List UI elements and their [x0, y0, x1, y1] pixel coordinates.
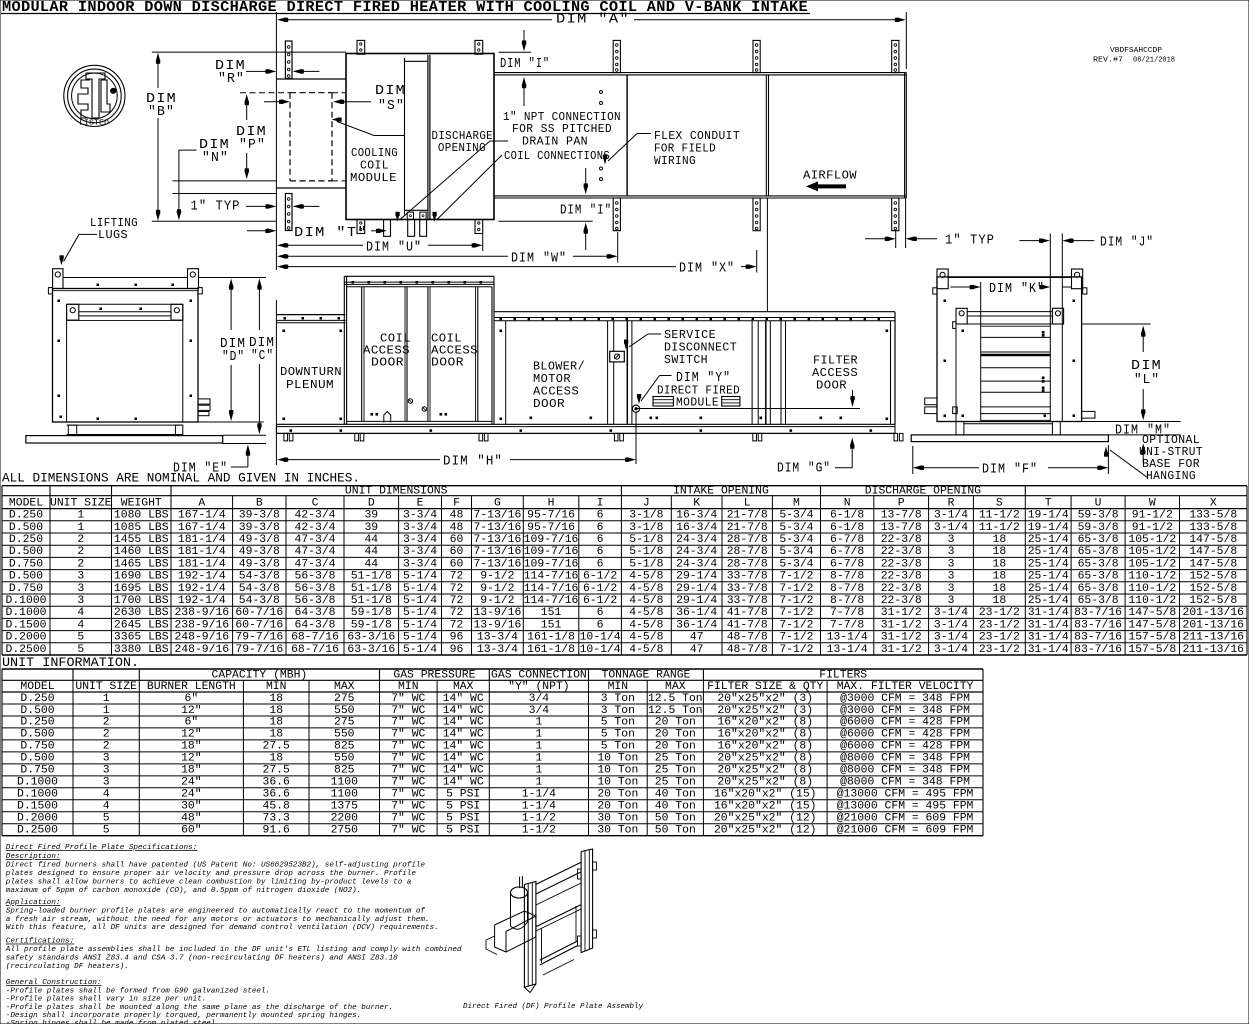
svg-text:1375: 1375: [331, 801, 359, 813]
svg-text:105-1/2: 105-1/2: [1128, 546, 1176, 558]
svg-text:5-1/4: 5-1/4: [403, 632, 437, 644]
right end view: filter rack shelves: [981, 326, 1051, 420]
svg-text:3: 3: [948, 558, 955, 570]
svg-text:plates designed to ensure prop: plates designed to ensure proper air vel…: [5, 870, 417, 878]
svg-text:"R": "R": [218, 71, 245, 87]
svg-text:R: R: [948, 498, 955, 510]
svg-text:64-3/8: 64-3/8: [294, 619, 335, 631]
svg-text:147-5/8: 147-5/8: [1189, 546, 1237, 558]
dimension DIM H / DIM Y line: [277, 413, 636, 470]
svg-text:7" WC: 7" WC: [391, 753, 425, 765]
svg-text:5-1/8: 5-1/8: [629, 558, 663, 570]
svg-text:20"x25"x2" (8): 20"x25"x2" (8): [717, 777, 813, 789]
svg-text:MIN: MIN: [608, 681, 629, 693]
label COOLING COIL MODULE: [350, 146, 398, 185]
svg-text:7-13/16: 7-13/16: [473, 534, 521, 546]
svg-text:68-7/16: 68-7/16: [291, 644, 339, 656]
dimension DIM W: [277, 232, 618, 267]
svg-text:79-7/16: 79-7/16: [235, 632, 283, 644]
svg-text:8-7/8: 8-7/8: [830, 583, 864, 595]
svg-text:19-1/4: 19-1/4: [1028, 510, 1069, 522]
svg-text:25 Ton: 25 Ton: [655, 765, 696, 777]
svg-text:@8000 CFM = 348 FPM: @8000 CFM = 348 FPM: [840, 753, 970, 765]
elevation: base channel with feet: [276, 424, 903, 441]
svg-text:FILTER SIZE & QTY: FILTER SIZE & QTY: [707, 681, 823, 693]
svg-text:68-7/16: 68-7/16: [291, 632, 339, 644]
svg-text:General Construction:: General Construction:: [6, 979, 102, 987]
svg-text:3: 3: [77, 571, 84, 583]
svg-text:7-1/2: 7-1/2: [779, 644, 813, 656]
svg-text:41-7/8: 41-7/8: [727, 607, 768, 619]
svg-text:MODEL: MODEL: [20, 681, 54, 693]
projection line plan-to-elevation: [766, 198, 768, 312]
svg-text:1" TYP: 1" TYP: [945, 233, 995, 249]
svg-text:6: 6: [597, 534, 604, 546]
plan: duct flange posts: [613, 40, 899, 230]
svg-text:3-1/4: 3-1/4: [934, 510, 968, 522]
svg-text:65-3/8: 65-3/8: [1078, 534, 1119, 546]
svg-text:110-1/2: 110-1/2: [1128, 583, 1176, 595]
svg-text:56-3/8: 56-3/8: [294, 595, 335, 607]
dimension DIM R: [215, 58, 319, 87]
svg-text:1080 LBS: 1080 LBS: [114, 510, 169, 522]
svg-text:60: 60: [450, 546, 464, 558]
service disconnect switch: [610, 351, 625, 362]
svg-text:16"x20"x2" (8): 16"x20"x2" (8): [717, 717, 813, 729]
svg-text:5-3/4: 5-3/4: [779, 510, 813, 522]
svg-text:7" WC: 7" WC: [391, 693, 425, 705]
svg-text:133-5/8: 133-5/8: [1189, 522, 1237, 534]
svg-text:6: 6: [597, 558, 604, 570]
svg-text:48: 48: [450, 510, 464, 522]
svg-text:@6000 CFM = 428 FPM: @6000 CFM = 428 FPM: [840, 717, 970, 729]
svg-text:60": 60": [181, 825, 202, 837]
svg-text:114-7/16: 114-7/16: [524, 571, 579, 583]
svg-text:@8000 CFM = 348 FPM: @8000 CFM = 348 FPM: [840, 777, 970, 789]
svg-text:181-1/4: 181-1/4: [178, 546, 226, 558]
svg-text:12": 12": [181, 729, 202, 741]
svg-text:5: 5: [77, 632, 84, 644]
svg-text:2: 2: [103, 717, 110, 729]
svg-text:31-1/4: 31-1/4: [1028, 632, 1069, 644]
svg-text:"N": "N": [202, 150, 229, 166]
svg-text:@3000 CFM = 348 FPM: @3000 CFM = 348 FPM: [840, 693, 970, 705]
svg-text:@3000 CFM = 348 FPM: @3000 CFM = 348 FPM: [840, 705, 970, 717]
svg-text:24-3/4: 24-3/4: [676, 534, 717, 546]
svg-text:2: 2: [103, 741, 110, 753]
svg-text:22-3/8: 22-3/8: [881, 571, 922, 583]
svg-text:1: 1: [535, 741, 542, 753]
svg-text:3-3/4: 3-3/4: [403, 510, 437, 522]
svg-text:192-1/4: 192-1/4: [178, 583, 226, 595]
svg-text:105-1/2: 105-1/2: [1128, 558, 1176, 570]
svg-text:3 Ton: 3 Ton: [601, 693, 635, 705]
svg-text:25-1/4: 25-1/4: [1028, 546, 1069, 558]
svg-text:248-9/16: 248-9/16: [174, 644, 229, 656]
svg-text:7" WC: 7" WC: [391, 717, 425, 729]
svg-text:83-7/16: 83-7/16: [1074, 644, 1122, 656]
svg-text:14" WC: 14" WC: [443, 765, 484, 777]
svg-text:MAX: MAX: [334, 681, 355, 693]
svg-text:23-1/2: 23-1/2: [979, 619, 1020, 631]
svg-text:25-1/4: 25-1/4: [1028, 534, 1069, 546]
svg-text:MODULE: MODULE: [350, 171, 397, 185]
svg-text:30 Ton: 30 Ton: [597, 813, 638, 825]
svg-text:31-1/4: 31-1/4: [1028, 619, 1069, 631]
svg-text:40 Ton: 40 Ton: [655, 801, 696, 813]
svg-text:18": 18": [181, 741, 202, 753]
svg-text:T: T: [1045, 498, 1052, 510]
svg-text:51-1/8: 51-1/8: [351, 571, 392, 583]
dimension DIM B: [146, 53, 177, 221]
svg-text:147-5/8: 147-5/8: [1189, 558, 1237, 570]
svg-text:-Profile plates shall be forme: -Profile plates shall be formed from G90…: [6, 987, 270, 995]
svg-text:211-13/16: 211-13/16: [1182, 644, 1244, 656]
svg-text:48": 48": [181, 813, 202, 825]
svg-text:60: 60: [450, 534, 464, 546]
right end view: outer box: [937, 277, 1082, 422]
svg-text:MAX: MAX: [665, 681, 686, 693]
svg-text:5-1/4: 5-1/4: [403, 583, 437, 595]
svg-text:"C": "C": [251, 348, 274, 364]
elevation: cooling coil module section: [344, 276, 494, 424]
svg-text:96: 96: [450, 632, 464, 644]
svg-text:(recirculating DF heaters).: (recirculating DF heaters).: [6, 963, 129, 971]
svg-text:7-13/16: 7-13/16: [473, 558, 521, 570]
svg-text:5-1/4: 5-1/4: [403, 619, 437, 631]
svg-text:FILTERS: FILTERS: [819, 670, 867, 682]
svg-text:60: 60: [450, 558, 464, 570]
svg-text:OPENING: OPENING: [438, 141, 486, 155]
svg-text:LISTED: LISTED: [79, 120, 109, 128]
svg-text:3-1/4: 3-1/4: [934, 607, 968, 619]
svg-text:12.5 Ton: 12.5 Ton: [648, 693, 703, 705]
svg-text:@6000 CFM = 428 FPM: @6000 CFM = 428 FPM: [840, 741, 970, 753]
svg-text:51-1/8: 51-1/8: [351, 583, 392, 595]
svg-text:D.2500: D.2500: [17, 825, 58, 837]
svg-text:51-1/8: 51-1/8: [351, 595, 392, 607]
svg-text:A: A: [198, 498, 205, 510]
svg-text:DIM "H": DIM "H": [443, 454, 503, 470]
svg-text:550: 550: [334, 729, 355, 741]
note UNIT INFORMATION: [2, 655, 139, 670]
svg-text:4: 4: [77, 619, 84, 631]
svg-text:91.6: 91.6: [263, 825, 291, 837]
svg-text:Direct fired burners shall hav: Direct fired burners shall have patented…: [6, 862, 426, 870]
svg-text:25 Ton: 25 Ton: [655, 777, 696, 789]
svg-text:25 Ton: 25 Ton: [655, 753, 696, 765]
svg-text:D: D: [368, 498, 375, 510]
plan: drain pipes under module: [384, 220, 427, 237]
svg-text:39: 39: [364, 510, 378, 522]
svg-text:F: F: [453, 498, 460, 510]
svg-text:825: 825: [334, 741, 355, 753]
svg-text:6-7/8: 6-7/8: [830, 534, 864, 546]
svg-text:65-3/8: 65-3/8: [1078, 571, 1119, 583]
svg-text:@13000 CFM = 495 FPM: @13000 CFM = 495 FPM: [837, 789, 974, 801]
svg-text:7" WC: 7" WC: [391, 705, 425, 717]
svg-text:1: 1: [535, 753, 542, 765]
svg-text:14" WC: 14" WC: [443, 693, 484, 705]
svg-text:65-3/8: 65-3/8: [1078, 546, 1119, 558]
svg-text:72: 72: [450, 583, 464, 595]
svg-text:6: 6: [597, 607, 604, 619]
dimension DIM D: [220, 279, 246, 422]
svg-text:3-1/8: 3-1/8: [629, 510, 663, 522]
plan: cooling coil module box: [346, 54, 494, 220]
svg-text:D.750: D.750: [20, 765, 54, 777]
svg-text:6-1/2: 6-1/2: [583, 583, 617, 595]
svg-text:18: 18: [993, 534, 1007, 546]
svg-text:147-5/8: 147-5/8: [1128, 619, 1176, 631]
svg-text:60-7/16: 60-7/16: [235, 607, 283, 619]
svg-text:D.750: D.750: [9, 583, 43, 595]
svg-text:DIM "U": DIM "U": [366, 240, 422, 256]
label COIL CONNECTIONS with leader: [432, 149, 610, 222]
svg-text:147-5/8: 147-5/8: [1189, 534, 1237, 546]
svg-text:D.1500: D.1500: [17, 801, 58, 813]
svg-text:5 PSI: 5 PSI: [446, 813, 480, 825]
label SERVICE DISCONNECT SWITCH with leader: [624, 328, 737, 367]
svg-text:3380 LBS: 3380 LBS: [114, 644, 169, 656]
svg-text:3-3/4: 3-3/4: [403, 534, 437, 546]
svg-text:GAS CONNECTION: GAS CONNECTION: [491, 670, 587, 682]
svg-text:14" WC: 14" WC: [443, 729, 484, 741]
extension lines DIM L/M: [1082, 324, 1181, 435]
plan view: left unit edge / extension line: [275, 12, 277, 465]
svg-text:2: 2: [77, 558, 84, 570]
svg-text:109-7/16: 109-7/16: [524, 558, 579, 570]
svg-text:7-1/2: 7-1/2: [779, 583, 813, 595]
svg-text:5: 5: [103, 825, 110, 837]
svg-text:10 Ton: 10 Ton: [597, 753, 638, 765]
svg-text:49-3/8: 49-3/8: [239, 546, 280, 558]
svg-text:20"x25"x2" (12): 20"x25"x2" (12): [714, 813, 817, 825]
direct fired module label and burner plates: [636, 384, 860, 410]
svg-text:21-7/8: 21-7/8: [727, 510, 768, 522]
caption: Direct Fired (DF) Profile Plate Assembly: [463, 1003, 643, 1011]
svg-text:3: 3: [948, 583, 955, 595]
svg-text:20"x25"x2" (8): 20"x25"x2" (8): [717, 753, 813, 765]
svg-text:9-1/2: 9-1/2: [480, 595, 514, 607]
svg-text:L: L: [744, 498, 751, 510]
svg-text:29-1/4: 29-1/4: [676, 595, 717, 607]
svg-text:MIN: MIN: [266, 681, 287, 693]
svg-text:LUGS: LUGS: [98, 228, 128, 242]
svg-text:36.6: 36.6: [263, 789, 291, 801]
svg-text:DISCHARGE OPENING: DISCHARGE OPENING: [865, 486, 981, 498]
svg-text:6-1/8: 6-1/8: [830, 522, 864, 534]
elevation: coil access doors: [347, 287, 492, 423]
svg-text:72: 72: [450, 607, 464, 619]
svg-text:825: 825: [334, 765, 355, 777]
svg-text:50 Ton: 50 Ton: [655, 825, 696, 837]
svg-text:E: E: [417, 498, 424, 510]
svg-text:56-3/8: 56-3/8: [294, 571, 335, 583]
svg-text:5-1/8: 5-1/8: [629, 534, 663, 546]
svg-text:29-1/4: 29-1/4: [676, 571, 717, 583]
svg-text:MIN: MIN: [398, 681, 419, 693]
svg-text:4-5/8: 4-5/8: [629, 644, 663, 656]
svg-text:105-1/2: 105-1/2: [1128, 534, 1176, 546]
svg-text:59-1/8: 59-1/8: [351, 607, 392, 619]
dimension DIM P: [236, 94, 267, 179]
svg-text:12": 12": [181, 705, 202, 717]
svg-text:DIM "X": DIM "X": [679, 261, 735, 277]
svg-text:25-1/4: 25-1/4: [1028, 595, 1069, 607]
svg-text:13-9/16: 13-9/16: [473, 607, 521, 619]
elevation: downturn plenum section: [276, 315, 345, 392]
svg-text:11-1/2: 11-1/2: [979, 510, 1020, 522]
label DISCHARGE OPENING with leader: [332, 117, 494, 155]
svg-text:4-5/8: 4-5/8: [629, 619, 663, 631]
svg-text:HANGING: HANGING: [1146, 469, 1196, 483]
svg-text:D.1000: D.1000: [17, 789, 58, 801]
svg-text:"S": "S": [378, 98, 405, 114]
dimension DIM E: [173, 445, 250, 477]
svg-text:4: 4: [77, 607, 84, 619]
elevation: main body right sections: [494, 312, 895, 425]
svg-text:D.500: D.500: [9, 571, 43, 583]
svg-text:DRAIN PAN: DRAIN PAN: [522, 135, 588, 149]
svg-text:D.250: D.250: [20, 717, 54, 729]
svg-text:C: C: [312, 498, 319, 510]
svg-text:Certifications:: Certifications:: [6, 938, 74, 946]
svg-text:D.250: D.250: [9, 534, 43, 546]
right end view: floor plate (uni-strut base): [911, 435, 1108, 442]
dimension DIM L: [1131, 326, 1162, 421]
table UNIT INFORMATION: [2, 669, 983, 837]
svg-text:18: 18: [993, 558, 1007, 570]
svg-text:1: 1: [535, 765, 542, 777]
svg-text:14" WC: 14" WC: [443, 705, 484, 717]
svg-text:D.500: D.500: [20, 705, 54, 717]
svg-text:6-1/8: 6-1/8: [830, 510, 864, 522]
svg-text:40 Ton: 40 Ton: [655, 789, 696, 801]
svg-text:SWITCH: SWITCH: [664, 353, 708, 367]
label AIRFLOW with arrow: [803, 169, 857, 192]
svg-text:83-7/16: 83-7/16: [1074, 619, 1122, 631]
svg-text:7-7/8: 7-7/8: [830, 619, 864, 631]
svg-text:72: 72: [450, 595, 464, 607]
svg-text:275: 275: [334, 717, 355, 729]
svg-text:39: 39: [364, 522, 378, 534]
svg-text:54-3/8: 54-3/8: [239, 571, 280, 583]
svg-text:201-13/16: 201-13/16: [1182, 619, 1244, 631]
svg-text:16-3/4: 16-3/4: [676, 522, 717, 534]
svg-text:24": 24": [181, 789, 202, 801]
svg-text:44: 44: [364, 558, 378, 570]
svg-text:47-3/4: 47-3/4: [294, 546, 335, 558]
svg-text:24-3/4: 24-3/4: [676, 558, 717, 570]
svg-text:50 Ton: 50 Ton: [655, 813, 696, 825]
svg-text:1: 1: [77, 510, 84, 522]
svg-text:1: 1: [103, 705, 110, 717]
svg-text:3: 3: [103, 777, 110, 789]
svg-text:UNIT SIZE: UNIT SIZE: [50, 498, 112, 510]
svg-text:28-7/8: 28-7/8: [727, 546, 768, 558]
svg-text:6-7/8: 6-7/8: [830, 546, 864, 558]
svg-text:14" WC: 14" WC: [443, 717, 484, 729]
dimension DIM J: [1019, 235, 1154, 251]
svg-text:25-1/4: 25-1/4: [1028, 583, 1069, 595]
svg-text:J: J: [643, 498, 650, 510]
svg-text:44: 44: [364, 546, 378, 558]
svg-text:6: 6: [597, 546, 604, 558]
svg-text:1: 1: [535, 717, 542, 729]
svg-text:-Spring hinges shall be made f: -Spring hinges shall be made from plated…: [6, 1020, 220, 1024]
dimension 1 inch TYP (right): [865, 198, 995, 249]
svg-text:29-1/4: 29-1/4: [676, 583, 717, 595]
svg-text:2: 2: [77, 534, 84, 546]
svg-text:5-1/4: 5-1/4: [403, 595, 437, 607]
svg-text:Application:: Application:: [5, 899, 61, 907]
svg-text:18: 18: [269, 705, 283, 717]
plan: main duct band: [494, 73, 906, 198]
svg-text:D.750: D.750: [9, 558, 43, 570]
svg-text:D.500: D.500: [20, 753, 54, 765]
svg-text:24": 24": [181, 777, 202, 789]
table UNIT DIMENSIONS: [2, 486, 1247, 656]
svg-text:3-1/4: 3-1/4: [934, 632, 968, 644]
svg-text:36-1/4: 36-1/4: [676, 619, 717, 631]
svg-text:S: S: [996, 498, 1003, 510]
drawing: DF profile plate assembly (isometric): [486, 849, 597, 993]
svg-text:5: 5: [103, 813, 110, 825]
svg-text:1460 LBS: 1460 LBS: [114, 546, 169, 558]
svg-text:20 Ton: 20 Ton: [655, 741, 696, 753]
svg-text:65-3/8: 65-3/8: [1078, 595, 1119, 607]
svg-text:COIL CONNECTIONS: COIL CONNECTIONS: [504, 149, 610, 163]
svg-text:Direct Fired (DF) Profile Plat: Direct Fired (DF) Profile Plate Assembly: [463, 1003, 643, 1011]
svg-text:275: 275: [334, 693, 355, 705]
svg-text:D.2000: D.2000: [5, 632, 46, 644]
svg-text:36-1/4: 36-1/4: [676, 607, 717, 619]
svg-text:95-7/16: 95-7/16: [527, 522, 575, 534]
svg-text:10 Ton: 10 Ton: [597, 765, 638, 777]
svg-text:maximum of 5ppm of carbon mono: maximum of 5ppm of carbon monoxide (CO),…: [6, 887, 361, 895]
svg-text:550: 550: [334, 705, 355, 717]
svg-text:PLENUM: PLENUM: [286, 378, 334, 392]
svg-text:33-7/8: 33-7/8: [727, 583, 768, 595]
label LIFTING LUGS with leader: [59, 216, 138, 265]
svg-text:UNIT INFORMATION.: UNIT INFORMATION.: [2, 655, 139, 670]
svg-text:3365 LBS: 3365 LBS: [114, 632, 169, 644]
right end view: base posts: [956, 422, 1060, 435]
svg-text:6-7/8: 6-7/8: [830, 558, 864, 570]
svg-text:1695 LBS: 1695 LBS: [114, 583, 169, 595]
svg-text:D.500: D.500: [9, 546, 43, 558]
svg-text:3: 3: [77, 583, 84, 595]
svg-text:DIM "T": DIM "T": [294, 225, 368, 241]
plan: coil connection points: [600, 91, 603, 181]
svg-text:5 Ton: 5 Ton: [601, 741, 635, 753]
svg-text:13-3/4: 13-3/4: [477, 644, 518, 656]
svg-text:49-3/8: 49-3/8: [239, 558, 280, 570]
svg-text:16"x20"x2" (8): 16"x20"x2" (8): [717, 741, 813, 753]
svg-text:TONNAGE RANGE: TONNAGE RANGE: [602, 670, 691, 682]
svg-text:-Profile plates shall vary in: -Profile plates shall vary in size per u…: [6, 996, 207, 1004]
svg-text:DIM "I": DIM "I": [560, 203, 612, 219]
svg-text:12.5 Ton: 12.5 Ton: [648, 705, 703, 717]
svg-text:WEIGHT: WEIGHT: [121, 498, 162, 510]
svg-text:18: 18: [269, 729, 283, 741]
svg-text:@21000 CFM = 609 FPM: @21000 CFM = 609 FPM: [837, 825, 974, 837]
svg-text:7-7/8: 7-7/8: [830, 607, 864, 619]
svg-text:25-1/4: 25-1/4: [1028, 558, 1069, 570]
svg-text:a fresh air stream, without th: a fresh air stream, without the need for…: [6, 916, 430, 924]
svg-text:REV.#7: REV.#7: [1093, 57, 1123, 65]
